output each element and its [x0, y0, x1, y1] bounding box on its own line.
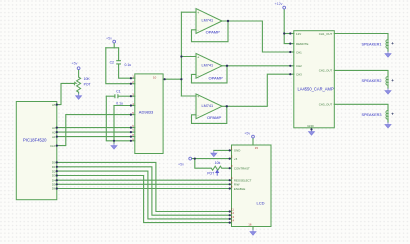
wire data row D2 to LCD pin13 [57, 171, 230, 219]
wire signal distribution vertical [180, 12, 182, 96]
ground arrow speaker2 [385, 88, 391, 94]
svg-text:+5v: +5v [106, 36, 112, 40]
op-amp U5 triangle [196, 94, 222, 119]
svg-text:A1: A1 [52, 135, 56, 139]
wires layer [57, 9, 388, 230]
resistor RV1 10K POT zigzag [77, 77, 81, 92]
wire +5v to LCD pin15 [252, 138, 254, 145]
wire data row D3 to LCD pin14 [57, 176, 230, 223]
wire speaker3 bottom stub [387, 119, 389, 123]
svg-text:10K: 10K [84, 77, 91, 81]
wire contrast branch to pot [195, 159, 212, 169]
power +5v symbol at LCD contrast [189, 157, 192, 160]
AD9833 pin number labels [132, 75, 156, 142]
svg-text:14: 14 [231, 219, 235, 223]
svg-text:D6: D6 [52, 187, 56, 191]
svg-text:CH3_OUT: CH3_OUT [319, 103, 333, 107]
wire op1 feedback loop [192, 21, 229, 42]
wire AD9833 pin4 to gnd [114, 105, 131, 107]
wire op3 output to amp CH3 [222, 74, 290, 106]
wire data row D0 to LCD pin11 [57, 162, 230, 211]
amp pin name labels [296, 32, 332, 128]
wire op2 plus input [181, 56, 196, 58]
wire LCD pin1 to gnd [214, 149, 230, 151]
svg-text:POT: POT [207, 172, 214, 176]
svg-text:A5: A5 [52, 103, 56, 107]
svg-text:OPAMP: OPAMP [206, 29, 220, 34]
ground arrow speaker1 [385, 51, 391, 57]
svg-text:A2: A2 [52, 130, 56, 134]
wire data row D5 to LCD RW [57, 183, 230, 185]
LCD pin name labels [234, 149, 252, 191]
svg-text:D3: D3 [52, 174, 56, 178]
LCD body [232, 145, 272, 227]
speaker LS2 coil [386, 77, 388, 86]
svg-text:LA4550_CAR_AMP: LA4550_CAR_AMP [298, 86, 334, 91]
svg-text:POT: POT [84, 83, 91, 87]
power +12v symbol at amp [283, 6, 286, 9]
svg-text:SPEAKER2: SPEAKER2 [361, 79, 381, 83]
wire C1 net to AD9833 pin3 and pin9 [106, 95, 114, 97]
svg-text:15: 15 [255, 146, 259, 150]
ground arrow below RV1 [76, 94, 82, 100]
svg-text:SPEAKER1: SPEAKER1 [361, 42, 381, 46]
wire A5 to pot wiper [57, 83, 74, 104]
wire pot to LCD pin3 [222, 167, 230, 169]
svg-text:16: 16 [248, 223, 252, 227]
svg-text:+5v: +5v [178, 163, 184, 167]
svg-text:CH1: CH1 [296, 50, 302, 54]
RV1 wiper arrow [74, 82, 77, 85]
wire pot bottom stub [78, 92, 80, 94]
LA4550_CAR_AMP U6 body [294, 31, 335, 128]
wire amp CH2_OUT to speaker2 [334, 70, 388, 76]
wire op3 plus input [181, 95, 196, 97]
wire +5v rail to C2 and AD9833 pins 1,2 [113, 43, 115, 48]
svg-text:+5v: +5v [72, 62, 78, 66]
wire +5v to LCD pin2 [192, 158, 230, 160]
capacitor C2 plates [116, 61, 121, 64]
svg-text:GND: GND [234, 149, 240, 153]
wire CLK to AD9833 pin5 [57, 115, 131, 146]
svg-text:+: + [391, 41, 394, 46]
speaker LS3 coil [386, 111, 388, 120]
svg-text:SPEAKER3: SPEAKER3 [361, 113, 381, 117]
capacitor C1 plates [115, 94, 118, 98]
svg-text:CLK: CLK [50, 144, 56, 148]
wire op1 output to amp CH1 [222, 21, 290, 52]
svg-text:PIC18F4520: PIC18F4520 [23, 138, 47, 143]
RV2 wiper arrow [216, 170, 219, 175]
svg-text:+12v: +12v [275, 2, 283, 6]
svg-text:AD9833: AD9833 [139, 110, 154, 115]
ground arrow AD9833 pin4 net [111, 143, 117, 149]
wire +12v to amp 12V and REMOTE [284, 9, 290, 44]
wire amp CH1_OUT to speaker1 [334, 34, 388, 40]
wire A2 to AD9833 pin7 [57, 131, 131, 133]
pin stubs [131, 77, 135, 79]
wire op3 feedback loop [192, 106, 227, 123]
svg-text:+5: +5 [234, 157, 238, 161]
svg-text:C1: C1 [116, 89, 120, 93]
wire op2 feedback loop [192, 66, 228, 83]
wire op2 output to amp CH2 [222, 65, 290, 67]
svg-text:10k: 10k [215, 161, 221, 165]
wire speaker1 bottom stub [387, 48, 389, 52]
PIC18F4520 U1 body [16, 102, 57, 200]
wire data row D4 to LCD RS [57, 179, 230, 181]
svg-text:CH3: CH3 [296, 73, 302, 77]
wire amp CH3_OUT to speaker3 [334, 104, 388, 110]
op-amp U4 triangle [196, 53, 222, 78]
wire A3 to AD9833 pin6 [57, 127, 131, 129]
svg-text:GND: GND [307, 124, 313, 128]
wire op1 plus input [181, 11, 196, 13]
PIC pin name labels [50, 103, 56, 191]
svg-text:LM741: LM741 [202, 18, 214, 22]
wire data row D1 to LCD pin12 [57, 167, 230, 215]
wire LCD pin16 to gnd [252, 227, 254, 230]
AD9833 U2 body [135, 74, 163, 154]
resistor RV2 contrast pot zigzag [211, 166, 221, 170]
svg-text:0.1u: 0.1u [116, 101, 123, 105]
svg-text:LCD: LCD [257, 201, 265, 206]
LCD pin number labels [231, 146, 259, 227]
svg-text:CH2: CH2 [296, 64, 302, 68]
svg-text:OPAMP: OPAMP [209, 75, 223, 80]
wire A1 to AD9833 pin8 [57, 136, 131, 138]
svg-text:12V: 12V [296, 32, 301, 36]
svg-text:CH1_OUT: CH1_OUT [319, 32, 333, 36]
svg-text:ENABLE: ENABLE [234, 187, 245, 191]
svg-text:LM741: LM741 [202, 64, 214, 68]
ground arrow LCD pin1 [211, 151, 217, 157]
wire speaker2 bottom stub [387, 85, 389, 89]
svg-text:D0: D0 [52, 161, 56, 165]
svg-text:REMOTE: REMOTE [296, 42, 308, 46]
op-amp +/- input marks [197, 10, 200, 118]
power +5v symbol at pot [77, 67, 80, 70]
power +5v symbol at LCD pin15 [252, 135, 255, 138]
power +5v symbol at C2 [113, 40, 116, 43]
svg-text:OPAMP: OPAMP [207, 115, 221, 120]
svg-text:A3: A3 [52, 126, 56, 130]
svg-text:D2: D2 [52, 169, 56, 173]
wire AD9833 out pin10 [163, 78, 181, 80]
ground arrow speaker3 [385, 122, 391, 128]
wire data row D6 to LCD E [57, 188, 230, 190]
svg-text:+: + [391, 78, 394, 83]
svg-text:0.1u: 0.1u [125, 63, 132, 67]
speaker LS1 coil [386, 40, 388, 49]
svg-text:CH2_OUT: CH2_OUT [319, 69, 333, 73]
op-amp U3 triangle [196, 9, 222, 34]
svg-text:CONTRAST: CONTRAST [234, 167, 250, 171]
wire amp GND stub [311, 128, 313, 130]
svg-text:10: 10 [153, 76, 157, 80]
svg-text:+5v: +5v [244, 131, 250, 135]
ground arrow amp GND [309, 129, 315, 135]
wire pot top stub [78, 70, 80, 78]
svg-text:+: + [391, 112, 394, 117]
svg-text:C2: C2 [110, 61, 114, 65]
ground arrow LCD pin16 [250, 229, 256, 235]
svg-text:LM741: LM741 [202, 104, 214, 108]
